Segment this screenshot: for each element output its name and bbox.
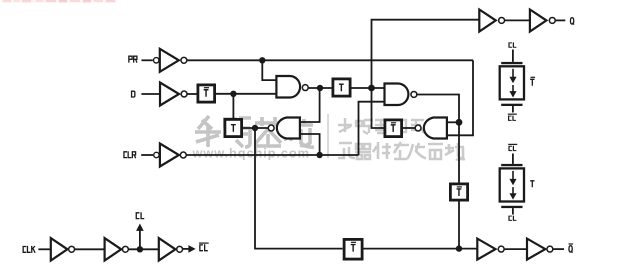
wire G1 output to TG3 bbox=[309, 87, 332, 89]
svg-text:www.hqchip.com: www.hqchip.com bbox=[192, 146, 310, 161]
NAND gate G3 slave set bbox=[385, 84, 417, 106]
input label PR bbox=[129, 56, 137, 62]
wire D inverter to TG1 bbox=[188, 93, 197, 95]
wire PR input stub bbox=[142, 59, 153, 61]
wire G4 top input bbox=[447, 121, 459, 123]
wire D-net junction down to TG2 bbox=[232, 94, 234, 118]
legend symbol 2 label CL bbox=[509, 216, 516, 221]
wire G1 output down to G2 top input bbox=[300, 88, 320, 122]
wire to Qbar label bbox=[553, 248, 564, 250]
wire PRbar net horizontal bbox=[187, 59, 473, 61]
junction CLRbar to NAND2 bbox=[316, 152, 322, 158]
output label Q bbox=[570, 18, 574, 25]
inverter U2 D bbox=[160, 83, 187, 106]
wire TG2 to NAND2 output node bbox=[243, 127, 268, 129]
inverter U10 clock 3 bbox=[159, 238, 183, 260]
NAND gate G1 master set bbox=[276, 76, 308, 98]
wire clock 2 to 3 bbox=[129, 248, 159, 250]
legend symbol 1 transmission gate Tbar bbox=[500, 50, 524, 113]
input label CLR bbox=[124, 151, 136, 158]
input circle CLR inverter bbox=[154, 152, 159, 157]
wire CLRbar net bbox=[187, 154, 359, 156]
wire NAND2 output down to output TG5 bbox=[255, 128, 343, 249]
NAND gate G4 slave reset mirrored bbox=[415, 118, 447, 139]
legend symbol 2 label CLbar bbox=[508, 144, 517, 150]
transmission gate TG1 Tbar box bbox=[198, 85, 215, 102]
inverter U7 Qbar buffer 2 bbox=[527, 239, 553, 260]
inverter U1 PR bbox=[160, 49, 187, 72]
junction Qbar node bbox=[456, 245, 462, 251]
legend symbol 2 transmission gate T bbox=[500, 154, 524, 215]
wire slave node down to TG4 bbox=[372, 88, 384, 128]
inverter U4 Q buffer 1 bbox=[479, 10, 504, 32]
inverter U6 Qbar buffer 1 bbox=[477, 239, 504, 260]
wire G2 bottom input to CLRbar bbox=[300, 134, 320, 155]
inverter U5 Q buffer 2 bbox=[530, 10, 555, 32]
junction G1 output bbox=[317, 85, 323, 91]
junction G3 output to G4 bbox=[456, 119, 463, 126]
watermark divider bbox=[327, 114, 329, 158]
transmission gate TG4 Tbar box slave feedback bbox=[385, 120, 402, 137]
node label CL bbox=[136, 212, 144, 218]
wire to Q label bbox=[556, 19, 566, 21]
legend symbol 1 label CL bbox=[509, 42, 516, 47]
inverter U9 clock 2 bbox=[105, 238, 129, 260]
wire Q buffers middle bbox=[505, 19, 530, 21]
wire G4 output to TG4 bbox=[403, 127, 415, 129]
watermark right small text line1 华强集团旗下 bbox=[338, 118, 443, 134]
transmission gate TG3 T box master to slave bbox=[333, 79, 350, 96]
junction NAND2 output node bbox=[252, 125, 258, 131]
transmission gate TG6 Tbar box slave to Qbar bbox=[450, 184, 467, 200]
wire G3 output to G4 top input bbox=[417, 95, 459, 183]
transmission gate TG2 T box bbox=[225, 119, 242, 136]
input circle PR inverter bbox=[154, 58, 159, 63]
legend symbol 1 label Tbar bbox=[530, 77, 535, 85]
legend symbol 1 label CLbar bbox=[508, 114, 517, 120]
NAND gate G2 master reset mirrored bbox=[268, 118, 300, 139]
wire Qbar buffers middle bbox=[505, 248, 527, 250]
input label D bbox=[132, 91, 135, 97]
inverter U8 clock 1 bbox=[51, 238, 75, 260]
output label Qbar bbox=[569, 244, 574, 253]
junction D-net feedback bbox=[230, 91, 236, 97]
inverter U3 CLR bbox=[160, 144, 186, 167]
wire PRbar right end down to NAND4 input bbox=[447, 60, 473, 135]
watermark right small text line2 元器件在线商城 bbox=[338, 142, 465, 160]
wire CLbar arrow bbox=[183, 245, 196, 253]
wire TG1 to NAND1 bottom input bbox=[216, 93, 276, 95]
watermark big gray characters 华强芯城 bbox=[195, 116, 314, 147]
junction slave input node bbox=[368, 85, 375, 92]
wire D input stub bbox=[141, 93, 160, 95]
wire CL tap up with arrow bbox=[136, 224, 144, 250]
wire TG3 to slave node bbox=[352, 87, 385, 89]
wire slave node up to Q buffers bbox=[372, 20, 480, 88]
wire TG5 to Qbar node bbox=[364, 248, 478, 250]
junction CL tap bbox=[137, 246, 143, 252]
transmission gate TG5 Tbar box master to Qbar bbox=[344, 239, 362, 259]
wire CLR input stub bbox=[141, 154, 153, 156]
wire clock 1 to 2 bbox=[75, 248, 105, 250]
input label CLK bbox=[23, 246, 35, 253]
wire PRbar down to NAND1 top input bbox=[262, 60, 276, 80]
node label CLbar bbox=[199, 243, 209, 251]
watermark red strip top-left bbox=[1, 0, 117, 3]
wire TG6 down to Qbar node bbox=[458, 200, 460, 249]
junction PRbar to NAND1 bbox=[259, 57, 265, 63]
wire CLRbar up to NAND3 bottom input bbox=[359, 102, 385, 155]
wire CLK input stub bbox=[38, 248, 50, 250]
legend symbol 2 label T bbox=[530, 181, 534, 187]
